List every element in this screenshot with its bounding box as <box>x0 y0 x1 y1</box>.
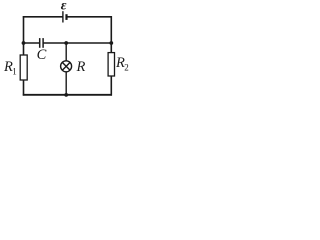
junction node left <box>22 41 26 45</box>
label C <box>37 47 47 63</box>
wire middle-left segment <box>24 42 40 44</box>
svg-text:2: 2 <box>124 62 129 72</box>
junction node bottom <box>64 93 68 97</box>
svg-text:1: 1 <box>12 66 16 76</box>
label R (lamp) <box>76 59 86 75</box>
junction node middle <box>64 41 68 45</box>
capacitor C <box>40 38 43 48</box>
resistor R1 <box>20 55 27 80</box>
label R2 <box>115 55 129 72</box>
wire middle-right segment <box>43 42 111 44</box>
wire top-right segment <box>66 16 112 18</box>
label ε <box>61 0 67 14</box>
wire right vertical <box>110 16 112 96</box>
wire bottom <box>23 94 112 96</box>
resistor R2 <box>108 53 114 76</box>
wire top-left segment <box>23 16 63 18</box>
svg-text:C: C <box>37 47 47 63</box>
svg-text:R: R <box>76 59 86 75</box>
lamp R <box>61 61 72 72</box>
junction node right <box>109 41 113 45</box>
wire left vertical <box>23 16 25 96</box>
svg-text:ε: ε <box>61 0 67 14</box>
wire lamp upper lead <box>65 43 67 61</box>
label R1 <box>3 59 17 76</box>
battery cell ε <box>63 11 67 22</box>
wire lamp lower lead <box>65 72 67 95</box>
